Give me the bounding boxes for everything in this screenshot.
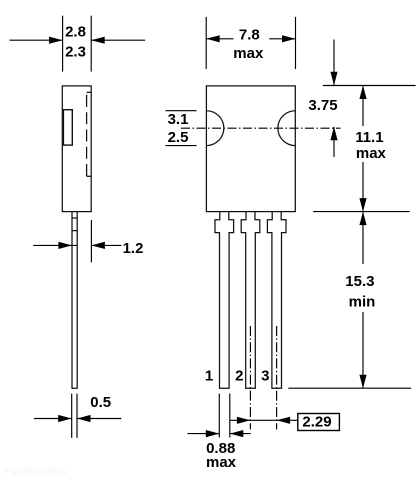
svg-text:1.2: 1.2 xyxy=(123,240,144,257)
svg-text:2.8: 2.8 xyxy=(65,23,86,40)
svg-text:2: 2 xyxy=(235,368,243,385)
svg-text:max: max xyxy=(356,145,387,162)
svg-text:3.75: 3.75 xyxy=(308,97,337,114)
svg-text:2.3: 2.3 xyxy=(65,43,86,60)
svg-text:2.29: 2.29 xyxy=(302,414,331,431)
svg-text:3.1: 3.1 xyxy=(168,111,189,128)
svg-text:3: 3 xyxy=(261,368,269,385)
svg-text:max: max xyxy=(206,454,237,471)
svg-text:0.5: 0.5 xyxy=(90,394,111,411)
svg-text:2.5: 2.5 xyxy=(168,129,189,146)
svg-text:11.1: 11.1 xyxy=(355,129,383,146)
svg-text:15.3: 15.3 xyxy=(345,273,374,290)
svg-text:max: max xyxy=(233,45,264,62)
svg-text:7.8: 7.8 xyxy=(239,26,260,43)
svg-text:• within this: • within this xyxy=(5,466,66,478)
svg-text:1: 1 xyxy=(205,368,213,385)
svg-text:min: min xyxy=(349,294,376,311)
